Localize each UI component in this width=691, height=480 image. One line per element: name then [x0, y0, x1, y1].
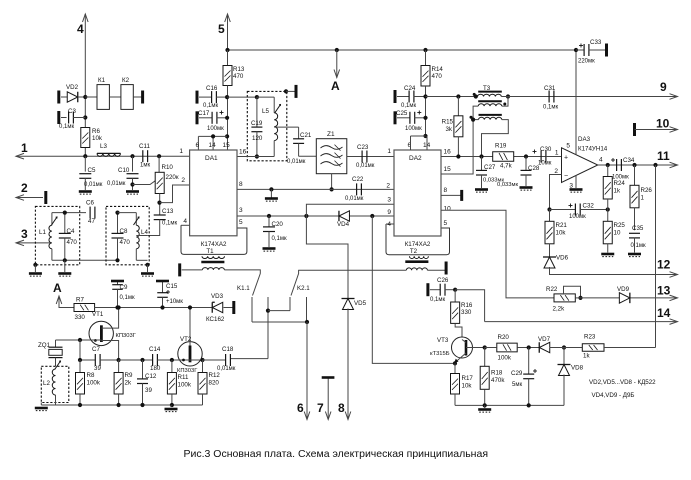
resistor R7 — [74, 304, 95, 312]
A rail marker — [59, 296, 74, 308]
inductor L4 — [135, 213, 137, 226]
terminal T1 secondary left — [182, 269, 203, 271]
svg-text:R16: R16 — [461, 302, 473, 309]
svg-text:C13: C13 — [162, 208, 174, 215]
svg-text:10k: 10k — [462, 383, 473, 390]
capacitor C4 — [64, 213, 66, 234]
ground bus mid — [170, 405, 172, 407]
wire pin5 supply — [575, 50, 577, 155]
svg-text:Рис.3 Основная плата. Схема эл: Рис.3 Основная плата. Схема электрическа… — [184, 448, 489, 460]
svg-text:L2: L2 — [43, 380, 50, 387]
svg-text:330: 330 — [461, 309, 472, 316]
svg-text:VD2,VD5...VD8 - КД522: VD2,VD5...VD8 - КД522 — [589, 379, 656, 386]
svg-text:14: 14 — [209, 142, 217, 149]
svg-text:C16: C16 — [206, 85, 218, 92]
terminal T2 secondary right — [427, 269, 446, 271]
svg-text:16: 16 — [444, 149, 452, 156]
svg-text:470: 470 — [233, 73, 244, 80]
node C24 — [423, 94, 427, 98]
resistor R16 — [454, 290, 456, 302]
svg-text:R18: R18 — [491, 370, 503, 377]
long riser 11 to R23 — [655, 165, 657, 348]
svg-text:VT3: VT3 — [437, 337, 449, 344]
wire C26 node to line14 — [455, 290, 484, 322]
svg-text:R17: R17 — [462, 375, 474, 382]
resistor R21 — [549, 210, 551, 222]
svg-text:VD8: VD8 — [571, 365, 584, 372]
output 14 wire — [485, 321, 677, 323]
node R10/line1 — [157, 154, 161, 158]
svg-text:C19: C19 — [251, 120, 263, 127]
resistor R26 — [634, 165, 636, 185]
svg-text:Z1: Z1 — [327, 131, 335, 138]
oscillator ground bus — [56, 404, 203, 406]
svg-text:C9: C9 — [120, 284, 128, 291]
output 11 wire — [598, 164, 677, 166]
svg-text:11: 11 — [657, 149, 670, 163]
svg-text:12: 12 — [657, 258, 671, 272]
capacitor C33 electrolytic — [576, 49, 584, 51]
node VT3 emitter — [453, 361, 457, 365]
tank2 top wire — [118, 212, 137, 214]
svg-text:1: 1 — [387, 148, 391, 155]
capacitor C35 — [629, 232, 640, 234]
ground C10 — [126, 190, 139, 193]
svg-text:L5: L5 — [262, 108, 269, 115]
ground C20 — [263, 247, 276, 250]
svg-text:2: 2 — [21, 181, 28, 195]
svg-text:2: 2 — [554, 168, 558, 175]
node R22 right — [578, 296, 582, 300]
svg-text:R14: R14 — [432, 66, 444, 73]
capacitor C28 — [525, 157, 527, 171]
output 10 terminal — [633, 123, 636, 136]
svg-text:220мк: 220мк — [578, 59, 595, 65]
T3 winding2 — [478, 100, 502, 102]
svg-text:VT2: VT2 — [180, 336, 192, 343]
svg-text:КП303Г: КП303Г — [116, 333, 137, 339]
svg-text:120: 120 — [252, 135, 263, 142]
terminal (K2 right) — [133, 96, 142, 98]
wire to line8 — [306, 216, 348, 299]
capacitor C20 — [268, 216, 270, 227]
wire T2 secondary to K2.1 — [299, 269, 407, 271]
resistor R18 — [484, 348, 486, 367]
wire ZQ1 to gate — [56, 339, 102, 341]
svg-text:VD2: VD2 — [66, 84, 79, 91]
shield box L2 — [41, 366, 69, 402]
svg-text:330: 330 — [75, 314, 86, 321]
svg-text:2,2k: 2,2k — [553, 306, 566, 313]
capacitor C21 — [298, 127, 300, 139]
svg-text:кТ315Б: кТ315Б — [430, 351, 450, 357]
node C16/R13 — [225, 95, 229, 99]
DA1 supply pins wire — [225, 134, 229, 138]
resistor R13 — [227, 50, 229, 66]
wire T3 w3 left — [473, 119, 478, 121]
svg-text:5: 5 — [444, 220, 448, 227]
svg-text:R26: R26 — [641, 187, 653, 194]
wire T3 w2 left to pin15 — [441, 106, 478, 174]
node line6 — [305, 320, 309, 324]
svg-text:0,1мк: 0,1мк — [430, 297, 445, 303]
resistor R22 — [554, 294, 575, 302]
wire pin9 node down to VT3 emitter — [372, 216, 455, 363]
detector ground bus — [455, 404, 564, 406]
diode VD7 — [539, 342, 550, 353]
shield box L1 C4 — [35, 206, 79, 264]
svg-text:C7: C7 — [92, 346, 100, 353]
svg-text:3: 3 — [21, 227, 28, 241]
node 4 input arrow — [84, 14, 86, 156]
wire R10 to DA1 pin2 — [160, 185, 190, 203]
capacitor C32 electrolytic — [550, 209, 576, 211]
capacitor C25 electrolytic — [394, 111, 397, 124]
svg-text:0,01мк: 0,01мк — [217, 366, 236, 372]
svg-text:0,01мк: 0,01мк — [107, 181, 126, 187]
svg-text:R10: R10 — [162, 164, 174, 171]
DA2 pin8 terminal — [441, 194, 462, 196]
node R14 top — [423, 48, 427, 52]
IC box T2 around DA2 — [386, 224, 450, 255]
svg-text:0,1мк: 0,1мк — [401, 103, 416, 109]
tank1 bottom wire — [52, 259, 119, 261]
svg-text:100мк: 100мк — [569, 214, 586, 220]
capacitor C10 — [132, 156, 134, 171]
node VT2 source — [200, 358, 204, 362]
svg-text:VD5: VD5 — [354, 300, 367, 307]
svg-text:0,1мк: 0,1мк — [272, 236, 287, 242]
shield2 ground — [145, 263, 149, 267]
svg-text:R7: R7 — [76, 297, 84, 304]
DA3 pin2 feedback — [550, 175, 562, 210]
svg-text:13: 13 — [657, 284, 671, 298]
diode VD5 — [342, 298, 355, 300]
node VT1 source — [117, 358, 121, 362]
ground stub pin8 — [269, 187, 273, 191]
capacitor C7 — [94, 354, 96, 366]
svg-text:10k: 10k — [556, 230, 567, 237]
svg-text:3k: 3k — [445, 126, 452, 133]
DA2 supply pins wire — [423, 134, 427, 138]
svg-text:L1: L1 — [39, 229, 46, 236]
svg-text:7: 7 — [317, 401, 324, 415]
svg-text:820: 820 — [209, 380, 220, 387]
resistor R23 — [582, 344, 604, 352]
svg-text:2k: 2k — [125, 380, 132, 387]
resistor R9 — [118, 360, 120, 373]
transistor VT2 — [178, 342, 202, 366]
svg-text:14: 14 — [657, 306, 671, 320]
capacitor C14 — [152, 354, 154, 366]
wire C21 to Z1 — [299, 155, 317, 157]
svg-text:DA1: DA1 — [205, 155, 218, 162]
relay coil K2 — [109, 96, 121, 98]
svg-text:10: 10 — [656, 117, 670, 131]
svg-text:C20: C20 — [272, 221, 284, 228]
diode VD4 — [339, 211, 350, 222]
diode VD6 — [543, 256, 556, 258]
node C32 left — [547, 207, 551, 211]
svg-text:6: 6 — [196, 142, 200, 149]
svg-text:10: 10 — [444, 206, 452, 213]
output 7 terminal — [327, 379, 329, 420]
node C10 wiper tap — [130, 182, 134, 186]
inductor L5 — [273, 97, 275, 113]
svg-text:VD7: VD7 — [538, 336, 551, 343]
svg-text:15: 15 — [444, 166, 452, 173]
svg-text:−: − — [564, 173, 568, 180]
ground C5 — [79, 190, 92, 193]
svg-text:220к: 220к — [166, 174, 179, 181]
svg-text:3: 3 — [387, 197, 391, 204]
transistor VT1 — [89, 321, 113, 345]
svg-text:C3: C3 — [68, 108, 76, 115]
svg-text:А: А — [53, 281, 62, 295]
resistor R8 — [79, 360, 81, 373]
svg-text:VD3: VD3 — [211, 293, 224, 300]
svg-text:C22: C22 — [352, 176, 364, 183]
node 5 input arrow — [227, 14, 229, 50]
svg-text:R6: R6 — [92, 128, 100, 135]
resistor R15 — [457, 97, 459, 116]
capacitor C3 — [83, 115, 87, 119]
capacitor C13 — [154, 214, 166, 216]
resistor R24 — [607, 165, 609, 177]
svg-text:C5: C5 — [88, 167, 96, 174]
svg-text:L3: L3 — [100, 143, 107, 150]
wire Z1 to C23 — [347, 156, 394, 158]
ground C4 — [64, 260, 66, 272]
svg-text:R20: R20 — [498, 334, 510, 341]
node VD7 right — [562, 345, 566, 349]
DA2 pin16 line — [441, 156, 562, 158]
wire DA1 pin3 line — [237, 215, 394, 217]
transformer T2 primary — [410, 256, 429, 258]
svg-text:470: 470 — [120, 239, 131, 246]
svg-text:47: 47 — [88, 218, 95, 225]
capacitor C29 electrolytic — [528, 348, 530, 375]
node C33 — [574, 48, 578, 52]
svg-text:4: 4 — [183, 218, 187, 225]
svg-text:R9: R9 — [125, 372, 133, 379]
svg-text:А: А — [331, 79, 340, 93]
wire K2.1 right to bus — [306, 302, 308, 323]
shield box C8 L4 — [106, 206, 149, 264]
svg-text:9: 9 — [660, 80, 667, 94]
wire common to C18 — [230, 358, 268, 360]
svg-text:ZQ1: ZQ1 — [38, 342, 51, 349]
svg-text:4,7k: 4,7k — [500, 163, 513, 170]
inductor L1 — [51, 213, 53, 226]
svg-text:C11: C11 — [139, 143, 150, 150]
svg-text:+10мк: +10мк — [166, 299, 183, 305]
svg-text:470: 470 — [432, 73, 443, 80]
capacitor C8 — [117, 213, 119, 234]
op-amp DA3 — [562, 148, 598, 183]
output 6 wire — [306, 322, 308, 419]
svg-text:100k: 100k — [87, 380, 101, 387]
node L5 bottom / DA1 pin16 — [255, 154, 259, 158]
svg-text:1: 1 — [641, 195, 645, 202]
wire T3 w3 right loop — [482, 120, 509, 157]
wire C13 to L4 tap — [148, 220, 160, 236]
svg-text:4: 4 — [77, 22, 84, 36]
capacitor C17 electrolytic — [196, 111, 199, 124]
svg-text:C18: C18 — [222, 346, 234, 353]
shield box L5 — [247, 91, 286, 160]
svg-text:КС162: КС162 — [206, 316, 225, 323]
svg-text:0,01мк: 0,01мк — [356, 163, 375, 169]
node R10 bottom — [157, 201, 161, 205]
node C26 R16 — [453, 288, 457, 292]
svg-text:К174ХА2: К174ХА2 — [201, 241, 227, 248]
svg-text:6: 6 — [297, 401, 304, 415]
svg-text:C34: C34 — [623, 157, 635, 164]
resistor R19 — [493, 152, 514, 162]
input 2 arrow and terminal — [16, 197, 43, 199]
svg-text:3: 3 — [239, 207, 243, 214]
svg-text:C4: C4 — [67, 228, 75, 235]
svg-text:R15: R15 — [442, 119, 454, 126]
op IC DA2 — [394, 150, 441, 236]
wire K1.1 right / K2.1 left common — [267, 302, 269, 359]
DA2 pin10 wire to line 13 — [441, 210, 554, 298]
capacitor C15 electrolytic — [162, 282, 164, 293]
svg-text:4: 4 — [599, 157, 603, 164]
svg-text:1k: 1k — [614, 188, 621, 195]
svg-text:C26: C26 — [437, 277, 449, 284]
resistor R17 — [454, 363, 456, 373]
svg-text:C8: C8 — [120, 228, 128, 235]
capacitor C16 — [196, 91, 199, 104]
svg-text:5: 5 — [218, 22, 225, 36]
node R26 top — [632, 163, 636, 167]
svg-text:1мк: 1мк — [140, 163, 150, 169]
output 13 wire — [581, 297, 677, 299]
node VD2/K1 — [83, 95, 87, 99]
supply line to T3 — [426, 96, 476, 98]
svg-text:DA3: DA3 — [578, 136, 591, 143]
wire C16 line into L5 box — [227, 96, 257, 98]
svg-text:C12: C12 — [145, 373, 157, 380]
node R24 top — [606, 163, 610, 167]
svg-text:R25: R25 — [614, 222, 626, 229]
wire DA1 pin4 — [181, 224, 190, 226]
wire DA1 pin8 line — [237, 188, 394, 190]
diode VD9 — [619, 293, 630, 304]
wire R16 to VT3 collector — [455, 323, 462, 339]
tank2 bottom wire — [136, 259, 147, 261]
svg-text:1: 1 — [21, 141, 28, 155]
svg-text:L4: L4 — [141, 229, 148, 236]
node R6/C5/line1 — [83, 154, 87, 158]
IC box T1 around DA1 — [181, 225, 247, 254]
svg-text:C15: C15 — [166, 283, 178, 290]
svg-text:0,1мк: 0,1мк — [203, 103, 218, 109]
svg-text:100k: 100k — [178, 382, 192, 389]
svg-text:15: 15 — [223, 142, 231, 149]
svg-text:39: 39 — [94, 365, 101, 372]
svg-text:100k: 100k — [498, 355, 512, 362]
ground bus left — [41, 404, 55, 406]
svg-text:R8: R8 — [87, 372, 95, 379]
capacitor C18 — [203, 359, 226, 361]
svg-text:Т1: Т1 — [206, 248, 214, 255]
supply top rail — [228, 49, 577, 51]
input 1 wire — [16, 155, 190, 157]
capacitor C5 — [84, 156, 86, 171]
svg-text:1: 1 — [555, 150, 559, 157]
svg-text:VT1: VT1 — [92, 311, 104, 318]
svg-text:470: 470 — [67, 239, 78, 246]
svg-text:Т2: Т2 — [410, 248, 418, 255]
node R15 top — [456, 94, 460, 98]
node C17 — [225, 116, 229, 120]
capacitor C27 — [481, 157, 483, 171]
svg-text:C30: C30 — [540, 146, 552, 153]
resistor R12 — [202, 360, 204, 373]
svg-text:0,01мк: 0,01мк — [287, 159, 306, 165]
shield1 ground — [33, 263, 37, 267]
wire L2 to bus — [55, 403, 57, 406]
svg-text:КП303Г: КП303Г — [177, 368, 198, 374]
svg-text:0,01мк: 0,01мк — [84, 182, 103, 188]
node R11 — [170, 358, 174, 362]
diode VD8 — [563, 348, 565, 365]
svg-text:К2: К2 — [122, 77, 130, 84]
wire DA2 pin4 — [386, 223, 394, 225]
op IC DA1 — [190, 150, 237, 236]
T1 core — [201, 261, 224, 264]
node A drop — [335, 48, 339, 52]
svg-text:К174УН14: К174УН14 — [578, 146, 608, 153]
capacitor C30 electrolytic — [540, 151, 542, 163]
diode VD3 zener — [210, 307, 212, 309]
svg-text:C6: C6 — [86, 200, 94, 207]
svg-text:0,1мк: 0,1мк — [120, 295, 135, 301]
output 12 wire — [550, 267, 677, 275]
wire Z1 bottom — [331, 174, 333, 190]
capacitor C34 electrolytic — [616, 159, 618, 171]
svg-text:R12: R12 — [209, 372, 221, 379]
node L5 top — [255, 95, 259, 99]
T2 core — [405, 260, 428, 263]
svg-text:0,01мк: 0,01мк — [345, 196, 364, 202]
transistor VT3 — [452, 337, 473, 358]
capacitor C19 — [256, 97, 258, 127]
transformer T1 primary — [202, 256, 225, 258]
svg-text:VD6: VD6 — [556, 255, 569, 262]
svg-text:K1.1: K1.1 — [237, 285, 250, 292]
inductor L2 — [52, 369, 55, 395]
resistor R20 — [497, 343, 517, 352]
svg-text:R24: R24 — [614, 180, 626, 187]
svg-text:5: 5 — [566, 143, 570, 150]
node C10/line1 — [130, 154, 134, 158]
svg-text:0,1мк: 0,1мк — [162, 221, 177, 227]
svg-text:9: 9 — [387, 209, 391, 216]
T2 secondary — [406, 268, 427, 270]
svg-text:8: 8 — [338, 401, 345, 415]
ground detector — [484, 405, 486, 408]
capacitor C9 — [117, 282, 119, 285]
capacitor C11 — [142, 150, 144, 162]
svg-text:R21: R21 — [556, 222, 568, 229]
svg-text:0,1мк: 0,1мк — [631, 243, 646, 249]
relay common bus — [252, 321, 307, 323]
wire T1 secondary to K1.1 — [224, 270, 260, 274]
